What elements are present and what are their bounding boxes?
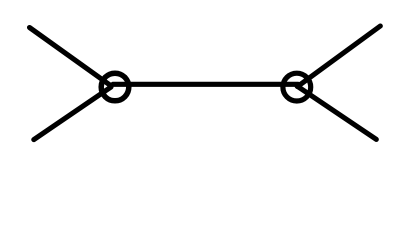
wire: upper-left external leg into node V1 <box>30 28 112 86</box>
wire: lower-left external leg into node V1 <box>34 87 111 140</box>
wire: lower-right external leg into node V2 <box>297 86 376 139</box>
wire: upper-right external leg into node V2 <box>298 26 381 87</box>
vertex circle V2 (right node) <box>283 73 311 101</box>
wire: horizontal propagator V1-V2 <box>113 82 298 87</box>
vertex circle V1 (left node) <box>101 73 129 101</box>
